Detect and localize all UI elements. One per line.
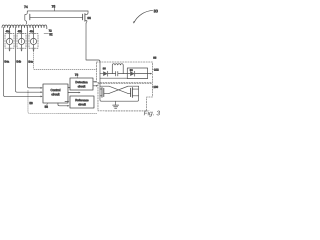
arrow 30 (134, 10, 153, 23)
dashed box 34a (5, 34, 14, 49)
transformer winding T1 (2, 25, 47, 29)
wire detection to box arrows (93, 81, 95, 83)
current source CS3 (30, 38, 36, 44)
wire branch line 3 (27, 27, 41, 88)
svg-text:54c: 54c (28, 60, 33, 64)
wire return rail (100, 77, 127, 79)
capacitor C1 (115, 71, 117, 76)
transistor Q4 (right) (130, 88, 132, 96)
svg-text:78: 78 (75, 73, 79, 77)
wire top rail (28, 10, 88, 12)
label 32 leader (44, 33, 49, 35)
dashed box 34c (29, 34, 38, 49)
wire tap 2 (21, 27, 23, 38)
svg-text:74: 74 (24, 5, 28, 9)
load box 90 (127, 68, 147, 79)
svg-text:96: 96 (87, 16, 91, 20)
svg-text:32: 32 (49, 32, 53, 36)
wire control to reference (65, 100, 68, 102)
wire tap 1 (9, 27, 11, 38)
transistor Q2 (top-right) (82, 14, 84, 20)
dotted control line 58 (28, 91, 97, 114)
wire branch line 2 (15, 27, 41, 92)
dashed box 102 (rectifier stage) (96, 62, 152, 83)
svg-text:98: 98 (153, 56, 157, 60)
svg-text:58: 58 (29, 101, 33, 105)
svg-text:circuit: circuit (78, 102, 86, 106)
wire cross-couple (100, 85, 109, 87)
current source CS2 (18, 38, 24, 44)
dashed box 34b (17, 34, 26, 49)
svg-text:102: 102 (154, 68, 159, 72)
transistor Q3 (left) (100, 89, 102, 96)
inductor L2 (112, 64, 123, 74)
wire output arrow (148, 73, 151, 75)
wire tap 3 (33, 27, 35, 38)
dashed box 100 (driver stage) (98, 84, 153, 111)
svg-text:54a: 54a (4, 60, 9, 64)
svg-text:88: 88 (103, 67, 106, 70)
svg-text:Fig. 3: Fig. 3 (144, 110, 161, 117)
current source CS1 (6, 38, 12, 44)
diode D1 (100, 73, 103, 75)
control circuit box U1 (43, 84, 68, 103)
svg-text:76: 76 (52, 5, 56, 9)
svg-text:54b: 54b (16, 60, 21, 64)
svg-text:circuit: circuit (78, 84, 86, 88)
wire right vertical (137, 86, 138, 101)
dotted sense line A (33, 51, 96, 69)
wire control to gate bus (68, 91, 79, 93)
transistor Q1 (top-left) (25, 11, 28, 24)
wire branch line 1 (3, 27, 41, 96)
svg-text:30: 30 (154, 9, 158, 13)
svg-text:100: 100 (153, 85, 158, 89)
reference circuit box U3 (70, 96, 94, 108)
svg-text:56: 56 (45, 105, 49, 109)
svg-text:circuit: circuit (51, 92, 59, 96)
wire drain drop (86, 24, 100, 62)
wire control to detection stub (68, 86, 70, 88)
wire source rail (101, 100, 137, 102)
diode D2 (126, 73, 130, 75)
wire left vertical (100, 62, 101, 102)
detection circuit box U2 (70, 78, 93, 90)
wire gate bus (30, 16, 83, 18)
ground (115, 101, 117, 105)
